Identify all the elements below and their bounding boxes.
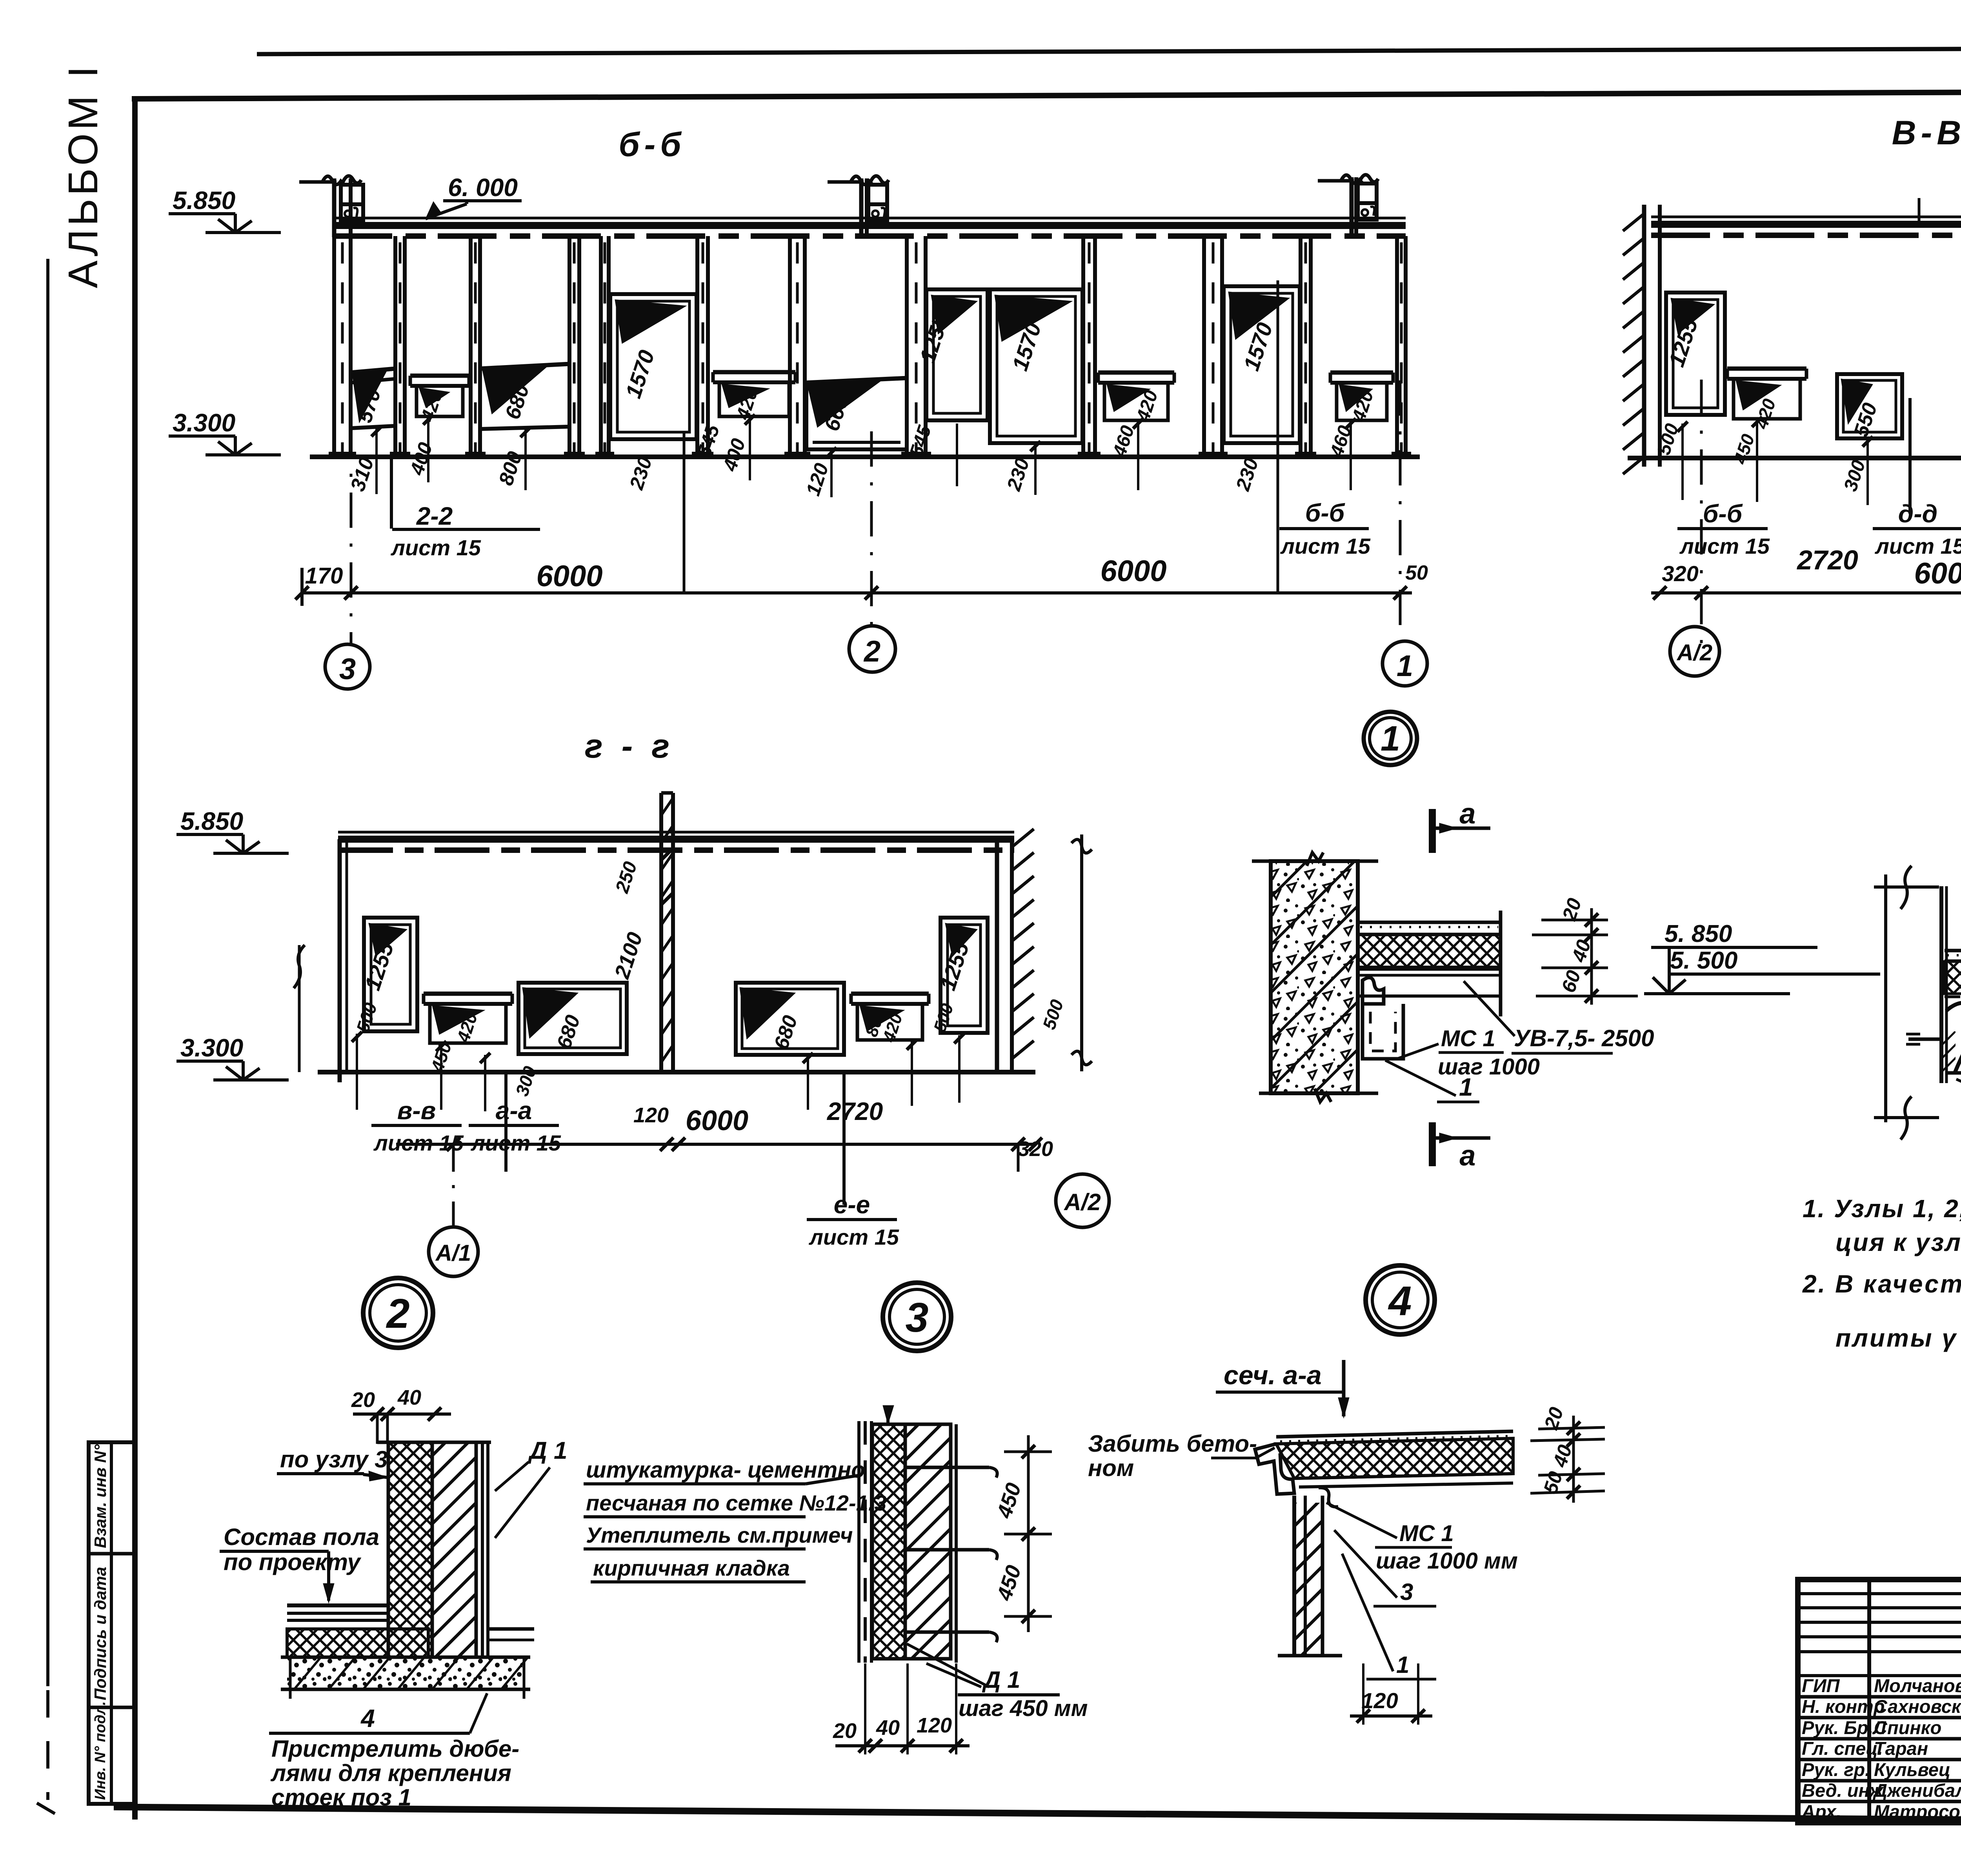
- svg-text:г - г: г - г: [585, 727, 674, 765]
- node circle 1: [1364, 712, 1417, 765]
- Г-Г tall window 1255 left: [364, 918, 417, 1031]
- svg-text:по проекту: по проекту: [224, 1549, 362, 1575]
- Б-Б thin roof top line: [333, 217, 1406, 220]
- Б-Б column 5: [599, 236, 603, 457]
- node circle 3: [883, 1283, 951, 1351]
- svg-text:ция к узлам на листе 15: ция к узлам на листе 15.: [1835, 1228, 1961, 1256]
- svg-text:Молчанов: Молчанов: [1874, 1675, 1961, 1696]
- Б-Б wall column at grid 3: [332, 236, 336, 457]
- node 2 wall right thin lines: [481, 1442, 484, 1657]
- svg-text:ном: ном: [1088, 1455, 1134, 1481]
- svg-text:Арх.: Арх.: [1801, 1801, 1841, 1822]
- node 4 asbestos wavy sheet: [1946, 1003, 1961, 1019]
- svg-text:д-д: д-д: [1898, 500, 1937, 528]
- node 3 rebar hooks: [905, 1466, 989, 1469]
- В-В shelf window 420 left: [1727, 367, 1806, 371]
- left edge small tick: [37, 1803, 55, 1814]
- node 3 wall right lines: [955, 1424, 958, 1663]
- svg-text:Дженибалиев: Дженибалиев: [1872, 1780, 1961, 1801]
- node 1 dim stack lines: [1541, 919, 1608, 922]
- Б-Б grid circle 3: [325, 644, 370, 689]
- node 3 wall crosshatch band: [872, 1424, 905, 1659]
- node 3 dim 450 x2: [1004, 1451, 1052, 1453]
- svg-text:1: 1: [1397, 649, 1413, 683]
- node 1 leader label 1: [1385, 1060, 1456, 1096]
- Г-Г roof band dashed line: [338, 847, 1014, 853]
- svg-text:б-б: б-б: [1703, 500, 1743, 528]
- сеч а-а right dim stack: [1538, 1427, 1605, 1429]
- Г-Г grid circle А/2: [1017, 1144, 1020, 1175]
- В-В roof band dashed line: [1651, 233, 1961, 238]
- node 4 column hatch strip: [1941, 1031, 1956, 1073]
- svg-text:Взам. инв N°: Взам. инв N°: [91, 1444, 109, 1548]
- node 1 wall bottom line with break: [1259, 1092, 1378, 1095]
- node 4 roof slab top lines: [1945, 949, 1961, 953]
- node 4 leader 2: [1956, 1079, 1961, 1143]
- Б-Б dim leader bay5: [683, 431, 686, 593]
- sheet bottom border line: [114, 1807, 1961, 1824]
- Г-Г roof band upper line: [338, 836, 1014, 843]
- node 2 floor crosshatch band: [287, 1629, 428, 1657]
- Б-Б column 8: [905, 236, 909, 457]
- sheet left outer thin line: [46, 259, 49, 1686]
- svg-text:6000: 6000: [1914, 557, 1961, 590]
- node 4 big wave over concrete: [1955, 1013, 1961, 1073]
- Б-Б shelf window 420 right-2: [1330, 371, 1393, 375]
- Г-Г dimension line: [396, 1143, 1035, 1146]
- svg-text:3.300: 3.300: [173, 409, 235, 437]
- Г-Г box window 680 left: [518, 983, 627, 1054]
- Б-Б section callout 2-2 лист 15: [390, 456, 393, 529]
- сеч а-а left angle piece: [1255, 1444, 1294, 1494]
- Б-Б column 2: [393, 236, 397, 457]
- Б-Б roof slab band upper line: [333, 222, 1406, 229]
- sheet outer top border line: [257, 47, 1961, 54]
- svg-text:2. В качестве утеплителя: 2. В качестве утеплителя приняты минерал…: [1802, 1270, 1961, 1298]
- svg-text:АЛЬБОМ I: АЛЬБОМ I: [60, 63, 106, 288]
- Б-Б shelf window 420 mid: [713, 370, 795, 374]
- svg-text:б-б: б-б: [1305, 499, 1346, 527]
- Б-Б column 11: [1299, 236, 1302, 457]
- svg-text:6000: 6000: [1100, 554, 1166, 588]
- В-В box window 550 left: [1837, 374, 1902, 438]
- node 2 extension ticks bottom: [289, 1657, 292, 1699]
- svg-text:сеч. а-а: сеч. а-а: [1224, 1360, 1322, 1390]
- node 4 extension line with breaks: [1884, 874, 1887, 1122]
- svg-text:УВ-7,5- 2500: УВ-7,5- 2500: [1514, 1025, 1654, 1051]
- svg-text:170: 170: [305, 563, 343, 589]
- В-В mid extension line above roof: [1918, 198, 1921, 222]
- node circle 4: [1366, 1265, 1435, 1334]
- сеч а-а hook under slab: [1319, 1488, 1338, 1507]
- Г-Г thin roof top line: [338, 831, 1014, 834]
- svg-text:лист 15: лист 15: [1679, 534, 1770, 558]
- svg-text:320: 320: [1018, 1137, 1053, 1161]
- sheet inner top border line: [132, 90, 1961, 99]
- svg-text:в-в: в-в: [397, 1096, 436, 1125]
- svg-text:Гл. спец.: Гл. спец.: [1802, 1738, 1883, 1759]
- node 2 floor slab lines: [287, 1603, 388, 1607]
- title block upper small rows: [1798, 1592, 1961, 1595]
- Б-Б small vertical dim leaders: [375, 428, 378, 494]
- svg-text:20: 20: [833, 1719, 857, 1743]
- svg-text:А/1: А/1: [435, 1240, 471, 1266]
- svg-text:6000: 6000: [686, 1105, 748, 1136]
- Г-Г small vertical dim leaders: [356, 1034, 358, 1110]
- Г-Г box window 680 right: [736, 983, 844, 1055]
- Б-Б column 3: [469, 236, 473, 457]
- svg-text:120: 120: [917, 1714, 952, 1737]
- svg-text:1: 1: [1381, 719, 1400, 758]
- Б-Б drain funnel 1: [299, 180, 337, 184]
- Г-Г tall window 1255 right: [940, 918, 988, 1033]
- svg-text:5.850: 5.850: [180, 807, 243, 835]
- node 4 insulation crosshatch: [1945, 962, 1961, 994]
- svg-text:шаг 1000 мм: шаг 1000 мм: [1376, 1548, 1518, 1574]
- Б-Б shelf window 420 right-1: [1098, 371, 1174, 375]
- svg-text:МС 1: МС 1: [1441, 1026, 1495, 1051]
- Б-Б grid axis 2 dash-dot line: [870, 431, 873, 627]
- svg-text:лист 15: лист 15: [808, 1225, 899, 1249]
- svg-text:1. Узлы 1, 2, 3, 4 замарк: 1. Узлы 1, 2, 3, 4 замаркированы на лист…: [1803, 1194, 1961, 1223]
- svg-text:лист 15: лист 15: [1874, 534, 1961, 558]
- svg-text:А/2: А/2: [1063, 1189, 1101, 1215]
- svg-text:2: 2: [863, 635, 880, 668]
- node 4 column lines: [1939, 886, 1943, 1083]
- Б-Б tall window 1255: [926, 289, 988, 420]
- node 2 foundation dotted band: [287, 1657, 522, 1689]
- Б-Б dim leader under 1255: [956, 424, 958, 486]
- svg-text:40: 40: [876, 1716, 900, 1740]
- node 2 wall diagonal band: [432, 1442, 476, 1657]
- node 2 wall top line: [377, 1441, 491, 1444]
- svg-text:2720: 2720: [827, 1097, 883, 1125]
- svg-text:5. 500: 5. 500: [1670, 947, 1737, 974]
- Б-Б column 7 near grid 2: [788, 236, 792, 457]
- node 1 asbestos sheet lines: [1358, 968, 1501, 971]
- Б-Б window 660: [805, 378, 907, 383]
- Б-Б dimension line 170+6000+6000+50: [302, 591, 1412, 594]
- title block outline: [1798, 1580, 1961, 1823]
- left edge vertical strip table: [89, 1442, 136, 1804]
- svg-text:Подпись и дата: Подпись и дата: [91, 1567, 109, 1700]
- node 4 bolt symbol: [1908, 1038, 1941, 1041]
- svg-text:Д 1: Д 1: [982, 1667, 1020, 1693]
- svg-text:3: 3: [339, 653, 356, 686]
- Г-Г grid circle А/1: [452, 1144, 455, 1227]
- svg-text:Забить бето-: Забить бето-: [1088, 1431, 1257, 1457]
- svg-text:Н. контр: Н. контр: [1802, 1696, 1885, 1717]
- svg-text:В-В: В-В: [1892, 114, 1961, 152]
- svg-text:МС 1: МС 1: [1399, 1521, 1454, 1546]
- svg-text:Вед. инж: Вед. инж: [1802, 1780, 1884, 1801]
- Б-Б drain funnel 2: [828, 180, 864, 184]
- svg-text:стоек поз 1: стоек поз 1: [271, 1784, 411, 1811]
- Б-Б small shelf window 420: [410, 374, 469, 378]
- svg-text:б-б: б-б: [618, 126, 686, 164]
- svg-text:лист 15: лист 15: [1280, 534, 1371, 558]
- svg-text:Матросова: Матросова: [1874, 1801, 1961, 1822]
- node 1 label УВ-7,5-2500: [1464, 981, 1515, 1036]
- node 1 insulation crosshatch band: [1358, 935, 1501, 967]
- svg-text:Спинко: Спинко: [1874, 1717, 1941, 1738]
- В-В thin roof top line: [1651, 216, 1961, 218]
- сеч а-а МС1 label: [1326, 1503, 1397, 1538]
- svg-text:3: 3: [1400, 1579, 1413, 1605]
- svg-text:4: 4: [360, 1704, 375, 1732]
- svg-text:песчаная по сетке №12-1.3: песчаная по сетке №12-1.3: [586, 1491, 886, 1515]
- Б-Б wall column at grid 1: [1395, 236, 1399, 457]
- svg-text:А/2: А/2: [1676, 640, 1712, 665]
- svg-text:1: 1: [1396, 1652, 1409, 1678]
- svg-text:5. 850: 5. 850: [1664, 920, 1732, 947]
- svg-text:Состав пола: Состав пола: [224, 1524, 379, 1550]
- node 2 floor right side lines: [488, 1627, 534, 1631]
- Б-Б column 4: [568, 236, 571, 457]
- svg-text:а-а: а-а: [496, 1096, 532, 1125]
- svg-text:1: 1: [1459, 1073, 1473, 1101]
- svg-text:3: 3: [906, 1294, 929, 1341]
- svg-text:a: a: [1459, 1139, 1475, 1172]
- node 1 right end vertical: [1499, 911, 1503, 1016]
- svg-text:Пристрелить дюбе-: Пристрелить дюбе-: [271, 1736, 519, 1762]
- В-В dimension line 320+2720+6000: [1651, 591, 1961, 594]
- Г-Г ground line: [318, 1070, 1035, 1074]
- сеч а-а slab bottom lines: [1294, 1474, 1513, 1478]
- svg-text:по узлу 3: по узлу 3: [280, 1446, 388, 1472]
- svg-text:3.300: 3.300: [180, 1034, 243, 1062]
- svg-text:шаг 1000: шаг 1000: [1438, 1054, 1540, 1080]
- В-В ground line: [1628, 456, 1961, 460]
- node 1 wall top line with break: [1252, 860, 1378, 863]
- node 2 wall crosshatch band: [388, 1442, 432, 1657]
- node 3 wall left lines: [857, 1421, 860, 1663]
- Г-Г right wall with hatching: [995, 839, 999, 1072]
- Б-Б grid circle 2: [849, 626, 895, 672]
- svg-text:Сахновская: Сахновская: [1874, 1696, 1961, 1717]
- Б-Б column 6: [695, 236, 699, 457]
- node 3 wall top arrow: [883, 1405, 894, 1424]
- Б-Б grid circle 1: [1383, 641, 1427, 686]
- svg-text:20: 20: [351, 1388, 375, 1412]
- svg-text:Д 1: Д 1: [528, 1437, 567, 1464]
- В-В grid circle А/2: [1700, 593, 1703, 627]
- В-В roof band upper line: [1651, 221, 1961, 228]
- svg-text:40: 40: [397, 1386, 421, 1409]
- Б-Б ground line: [310, 454, 1420, 459]
- node 1 label МС1 шаг 1000: [1397, 1044, 1439, 1059]
- Б-Б drain funnel 3: [1318, 179, 1354, 183]
- svg-text:6. 000: 6. 000: [448, 173, 518, 202]
- svg-text:Утеплитель см.примеч: Утеплитель см.примеч: [586, 1523, 853, 1547]
- node 3 wall diagonal band: [905, 1424, 951, 1659]
- Б-Б tall window 1570 mid: [990, 289, 1082, 443]
- Г-Г shelf window 420 right: [851, 992, 929, 996]
- node 3 label Д1 шаг 450: [926, 1663, 981, 1687]
- node 4 dashed line under insulation: [1945, 996, 1961, 998]
- В-В small vertical dim leaders: [1681, 424, 1684, 500]
- node 1 section mark a upper: [1429, 809, 1436, 853]
- title block signature columns: [1867, 1580, 1871, 1823]
- svg-text:6000: 6000: [536, 560, 602, 593]
- svg-text:лист 15: лист 15: [390, 535, 481, 560]
- Г-Г right dim break line: [1080, 834, 1083, 1071]
- Б-Б window 570 with sill: [351, 369, 395, 373]
- svg-text:плиты γ = 175 кг/м³ ГОСТ: плиты γ = 175 кг/м³ ГОСТ 9573 -62: [1835, 1324, 1961, 1352]
- svg-text:2-2: 2-2: [416, 502, 453, 530]
- Г-Г interior column above roof: [659, 793, 663, 1072]
- Б-Б roof slab band lower dashed line: [333, 233, 1406, 239]
- Б-Б tall window 1570 right: [1224, 286, 1300, 443]
- Б-Б column 10: [1202, 236, 1206, 457]
- svg-text:a: a: [1459, 797, 1475, 830]
- svg-text:5.850: 5.850: [173, 186, 235, 215]
- node 1 purlin bottom line: [1358, 994, 1501, 998]
- svg-text:Рук. гр.: Рук. гр.: [1802, 1759, 1870, 1780]
- svg-text:2: 2: [386, 1291, 410, 1337]
- node 1 level flag arrow: [1653, 977, 1669, 994]
- svg-text:ГИП: ГИП: [1802, 1675, 1840, 1696]
- svg-text:120: 120: [1361, 1688, 1398, 1713]
- sheet main left border line: [132, 98, 138, 1820]
- сеч а-а label 3: [1334, 1530, 1397, 1598]
- svg-text:е-е: е-е: [834, 1191, 870, 1219]
- сеч а-а wall below: [1292, 1496, 1296, 1656]
- node 4 concrete fill with dots: [1957, 1014, 1961, 1073]
- svg-text:Таран: Таран: [1874, 1738, 1928, 1759]
- svg-text:штукатурка- цементно: штукатурка- цементно: [586, 1457, 865, 1483]
- сеч а-а slab dotted top line: [1276, 1431, 1513, 1437]
- svg-text:4: 4: [1388, 1278, 1412, 1324]
- svg-text:Инв. N° подл.: Инв. N° подл.: [92, 1701, 109, 1800]
- Г-Г shelf window 420 left: [424, 992, 512, 996]
- svg-text:50: 50: [1405, 562, 1428, 584]
- сеч а-а slab crosshatch band: [1276, 1438, 1513, 1478]
- В-В left wall with hatching: [1642, 205, 1646, 467]
- Б-Б grid axis 3 dash-dot line: [350, 423, 353, 645]
- svg-text:320: 320: [1662, 561, 1698, 586]
- svg-text:шаг 450 мм: шаг 450 мм: [959, 1696, 1088, 1721]
- svg-text:кирпичная кладка: кирпичная кладка: [593, 1556, 790, 1580]
- svg-text:Кульвец: Кульвец: [1874, 1759, 1950, 1780]
- node 1 section mark a lower: [1429, 1122, 1436, 1166]
- сеч а-а label 1: [1342, 1554, 1393, 1671]
- svg-text:2720: 2720: [1796, 545, 1858, 575]
- Г-Г left wall lines: [338, 839, 342, 1082]
- node circle 2: [363, 1278, 433, 1348]
- Б-Б tall window 1570 left: [610, 294, 697, 439]
- Б-Б section callout Б-Б лист 15: [1277, 280, 1279, 593]
- title block signature rows: [1798, 1695, 1961, 1699]
- node 1 МС1 channel bracket: [1363, 978, 1384, 1004]
- node 1 roof screed layer: [1358, 921, 1501, 924]
- svg-text:120: 120: [633, 1103, 669, 1127]
- В-В tall window 1255 left: [1666, 293, 1725, 415]
- Б-Б grid axis 1 dash-dot line: [1399, 380, 1402, 642]
- Г-Г break mark on left extension: [298, 945, 301, 1072]
- svg-text:лями для крепления: лями для крепления: [270, 1760, 511, 1786]
- Б-Б window 680 with wedge: [480, 364, 569, 369]
- Б-Б column 9: [1081, 236, 1085, 457]
